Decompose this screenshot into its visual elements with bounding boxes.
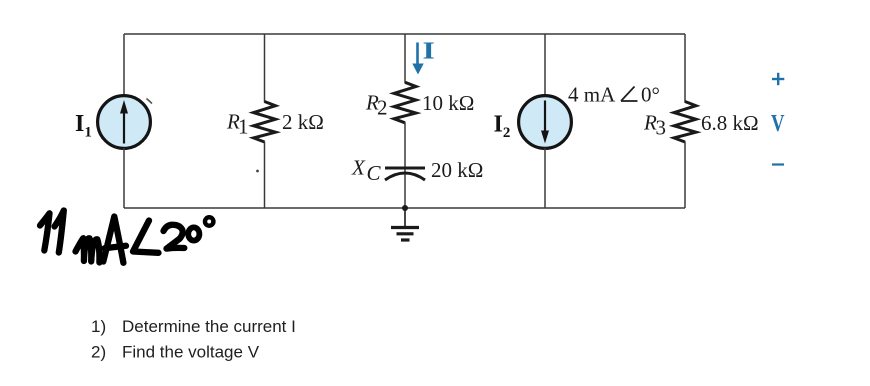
- stray ink mark: [147, 99, 153, 104]
- handwritten 11: [40, 211, 64, 253]
- svg-text:I1: I1: [75, 111, 92, 141]
- svg-text:1): 1): [91, 317, 106, 336]
- capacitor XC: [385, 168, 425, 180]
- svg-text:2: 2: [377, 96, 388, 120]
- question 1 text: [91, 317, 296, 336]
- svg-text:I2: I2: [494, 112, 511, 142]
- wire left branch lower: [123, 148, 125, 208]
- svg-text:Determine the current I: Determine the current I: [122, 317, 296, 336]
- wire I2 branch upper: [544, 34, 546, 96]
- svg-text:Find the voltage V: Find the voltage V: [122, 343, 260, 362]
- svg-text:6.8 kΩ: 6.8 kΩ: [701, 111, 759, 135]
- svg-text:3: 3: [656, 116, 667, 140]
- handwritten mA: [76, 217, 127, 263]
- current source I1: [98, 96, 151, 149]
- wire I2 branch lower: [544, 148, 546, 208]
- svg-text:2): 2): [91, 343, 106, 362]
- wire middle branch lower: [404, 122, 406, 208]
- wire R1 branch lower: [264, 142, 266, 209]
- label plus polarity: [772, 73, 784, 85]
- wire top rail: [124, 33, 685, 35]
- wire left branch upper: [123, 34, 125, 96]
- question 2 text: [91, 343, 260, 362]
- svg-text:1: 1: [238, 115, 249, 139]
- svg-text:X: X: [351, 156, 366, 180]
- wire right branch lower: [684, 142, 686, 209]
- svg-text:4 mA: 4 mA: [568, 83, 616, 107]
- svg-text:20 kΩ: 20 kΩ: [431, 158, 483, 182]
- current source I2: [519, 96, 572, 149]
- svg-text:10 kΩ: 10 kΩ: [422, 91, 474, 115]
- svg-text:V: V: [771, 111, 785, 137]
- svg-text:I: I: [423, 38, 435, 64]
- node junction: [402, 205, 408, 211]
- ground: [391, 208, 419, 240]
- handwritten 20 deg: [164, 217, 214, 248]
- svg-text:C: C: [367, 161, 382, 185]
- svg-text:2 kΩ: 2 kΩ: [282, 110, 324, 134]
- resistor R1: [254, 102, 276, 143]
- wire R1 branch upper: [264, 34, 266, 103]
- current arrow I: [412, 43, 423, 75]
- wire middle branch upper: [404, 34, 406, 83]
- label minus polarity: [772, 163, 784, 165]
- handwritten angle: [133, 221, 159, 253]
- wire bottom rail: [124, 207, 685, 209]
- label I2 value 4 mA angle 0 deg: [568, 83, 660, 107]
- wire right branch upper: [684, 34, 686, 103]
- svg-text:0°: 0°: [641, 83, 660, 107]
- stray ink dot: [256, 170, 259, 173]
- resistor R2: [394, 82, 416, 123]
- resistor R3: [674, 102, 696, 143]
